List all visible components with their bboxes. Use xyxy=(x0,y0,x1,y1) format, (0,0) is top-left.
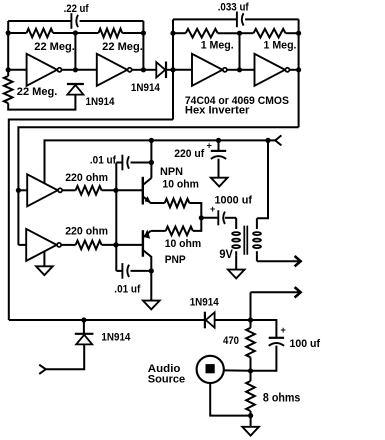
svg-text:1N914: 1N914 xyxy=(101,331,131,343)
svg-text:.22 uf: .22 uf xyxy=(64,3,89,15)
svg-text:22 Meg.: 22 Meg. xyxy=(17,86,58,98)
svg-text:Hex Inverter: Hex Inverter xyxy=(185,105,250,117)
svg-text:22 Meg.: 22 Meg. xyxy=(102,41,143,53)
svg-text:470: 470 xyxy=(223,335,239,347)
svg-text:1000 uf: 1000 uf xyxy=(215,195,253,207)
svg-text:10 ohm: 10 ohm xyxy=(165,238,202,250)
svg-text:PNP: PNP xyxy=(165,254,186,266)
svg-text:22 Meg.: 22 Meg. xyxy=(34,41,75,53)
svg-text:1 Meg.: 1 Meg. xyxy=(264,39,297,51)
svg-text:.033 uf: .033 uf xyxy=(218,1,249,13)
svg-text:220 ohm: 220 ohm xyxy=(65,172,108,184)
svg-text:.01 uf: .01 uf xyxy=(114,284,140,296)
svg-text:9V: 9V xyxy=(219,247,233,261)
svg-text:1N914: 1N914 xyxy=(86,96,116,108)
svg-text:100 uf: 100 uf xyxy=(290,338,321,350)
svg-text:10 ohm: 10 ohm xyxy=(162,179,199,191)
svg-text:220 uf: 220 uf xyxy=(174,148,204,160)
svg-text:1N914: 1N914 xyxy=(190,296,220,308)
svg-text:1N914: 1N914 xyxy=(131,82,161,94)
svg-text:Source: Source xyxy=(148,373,185,385)
svg-text:NPN: NPN xyxy=(160,166,183,178)
svg-text:+: + xyxy=(281,325,286,335)
svg-text:1 Meg.: 1 Meg. xyxy=(201,39,234,51)
svg-text:8 ohms: 8 ohms xyxy=(263,391,301,405)
svg-text:+: + xyxy=(210,204,215,214)
svg-text:.01 uf: .01 uf xyxy=(90,154,116,166)
svg-text:+: + xyxy=(207,140,212,150)
svg-text:220 ohm: 220 ohm xyxy=(65,226,108,238)
